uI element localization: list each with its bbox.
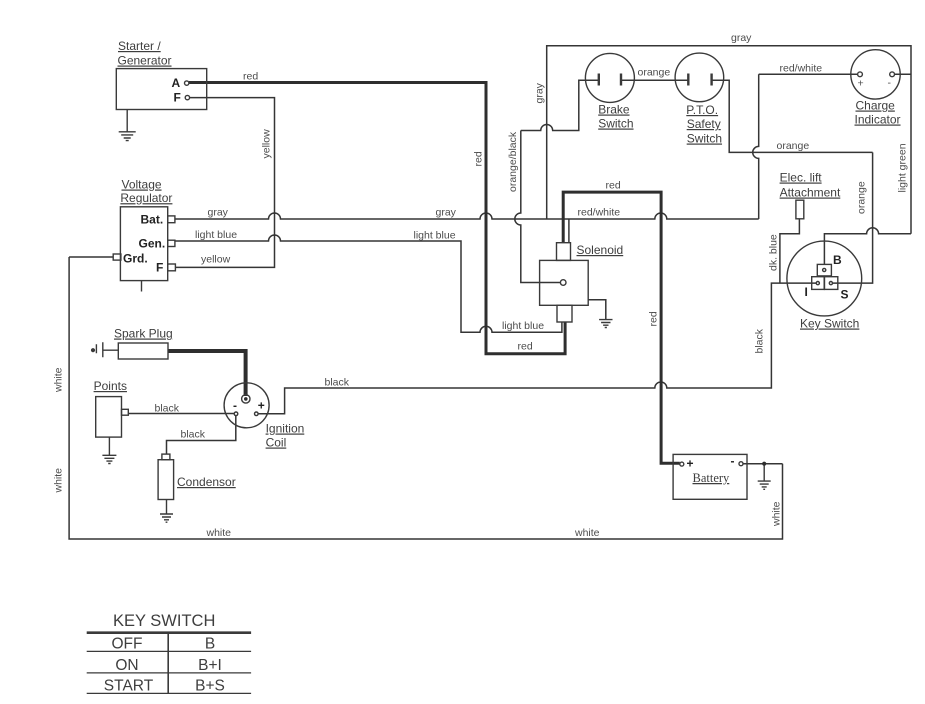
- svg-text:white: white: [206, 527, 232, 539]
- regulator Gen. terminal: [168, 240, 175, 246]
- condensor body: [158, 460, 174, 500]
- svg-text:Starter /: Starter /: [118, 39, 161, 53]
- regulator Grd. terminal: [113, 254, 121, 260]
- wire white ground loop: left side, bottom, up to battery minus: [69, 257, 782, 539]
- svg-text:A: A: [172, 76, 181, 90]
- wire brake switch to PTO switch (orange): [621, 79, 688, 81]
- regulator Bat. terminal: [168, 216, 175, 223]
- regulator F terminal: [168, 264, 176, 271]
- wire battery minus to ground junction: [743, 463, 783, 465]
- svg-text:Regulator: Regulator: [120, 191, 172, 205]
- key switch S pin: [829, 282, 832, 285]
- node battery ground junction: [762, 462, 766, 466]
- brake switch left contact bar: [598, 74, 600, 86]
- ground (starter/generator): [119, 110, 136, 141]
- wire white: regulator Grd. stub: [69, 256, 113, 258]
- wire red/white from charge indicator plus, left and down with hop over orange horizontal: [753, 74, 858, 219]
- svg-text:black: black: [155, 403, 180, 415]
- starter pin A terminal: [185, 81, 189, 85]
- svg-text:-: -: [233, 399, 237, 413]
- svg-text:Key Switch: Key Switch: [800, 317, 859, 331]
- svg-text:light blue: light blue: [195, 229, 237, 241]
- svg-text:-: -: [888, 77, 892, 89]
- svg-text:Switch: Switch: [687, 132, 722, 146]
- charge indicator circle: [851, 50, 900, 99]
- svg-text:Points: Points: [94, 379, 127, 393]
- key switch I contact box: [812, 277, 825, 290]
- svg-text:Elec. lift: Elec. lift: [780, 171, 823, 185]
- spark plug body: [118, 343, 168, 359]
- ignition coil tower terminal dot: [242, 395, 250, 403]
- key switch I pin: [816, 282, 819, 285]
- ground (points): [102, 437, 116, 463]
- svg-text:+: +: [258, 399, 265, 413]
- svg-text:KEY SWITCH: KEY SWITCH: [113, 612, 215, 630]
- svg-text:Attachment: Attachment: [780, 186, 841, 200]
- ground (solenoid): [599, 320, 612, 328]
- pto switch right contact bar: [710, 74, 712, 86]
- svg-text:orange: orange: [638, 67, 671, 79]
- wire thick ignition cable: spark plug to coil tower: [168, 351, 246, 396]
- wire dk. blue: key switch I up to elec lift attachment: [780, 219, 800, 283]
- wire red thick: starter A right, down, to solenoid bottom terminal: [189, 83, 565, 354]
- regulator bottom stub: [141, 281, 143, 292]
- svg-text:gray: gray: [731, 32, 752, 44]
- svg-text:red/white: red/white: [780, 63, 823, 75]
- ignition coil plus terminal: [254, 412, 258, 416]
- key switch B contact box: [817, 264, 831, 276]
- condensor cap: [162, 454, 170, 460]
- ground (condensor): [160, 500, 173, 523]
- svg-text:white: white: [574, 527, 600, 539]
- svg-text:Generator: Generator: [118, 54, 172, 68]
- svg-text:yellow: yellow: [201, 254, 231, 266]
- svg-text:B: B: [205, 636, 215, 653]
- svg-text:Battery: Battery: [693, 471, 731, 485]
- wire orange vertical down to key switch S: [833, 152, 873, 283]
- svg-text:+: +: [858, 78, 864, 90]
- wire light blue: regulator Gen. to solenoid bottom, hops over yellow and red verticals: [175, 235, 562, 332]
- brake switch right contact bar: [620, 74, 622, 86]
- svg-text:orange: orange: [856, 181, 868, 214]
- points box: [96, 397, 122, 438]
- svg-text:+: +: [687, 457, 694, 471]
- svg-text:yellow: yellow: [261, 129, 273, 159]
- svg-text:orange: orange: [777, 140, 810, 152]
- svg-text:OFF: OFF: [112, 636, 143, 653]
- svg-text:Gen.: Gen.: [139, 237, 166, 251]
- ignition coil body circle: [224, 383, 269, 428]
- svg-text:Grd.: Grd.: [123, 251, 148, 265]
- key switch S contact box: [825, 277, 838, 290]
- points terminal: [122, 409, 129, 415]
- svg-text:ON: ON: [115, 657, 138, 674]
- wire red/white branch down to solenoid top terminal: [568, 219, 570, 243]
- p.t.o. safety switch circle: [675, 53, 724, 102]
- solenoid coil terminal circle: [560, 280, 566, 286]
- key switch circle: [787, 241, 862, 316]
- svg-text:Ignition: Ignition: [266, 422, 305, 436]
- wire yellow: starter F down to regulator F: [175, 98, 275, 268]
- svg-text:Spark Plug: Spark Plug: [114, 327, 173, 341]
- svg-text:I: I: [805, 285, 808, 299]
- voltage regulator box: [120, 207, 167, 281]
- svg-text:gray: gray: [208, 207, 229, 219]
- svg-text:F: F: [156, 261, 163, 275]
- svg-text:gray: gray: [436, 207, 457, 219]
- charge indicator plus terminal: [858, 72, 863, 77]
- svg-text:S: S: [841, 288, 849, 302]
- solenoid bottom terminal: [557, 305, 572, 322]
- svg-text:B+S: B+S: [195, 678, 225, 695]
- elec. lift attachment connector: [796, 200, 804, 219]
- svg-text:Indicator: Indicator: [855, 113, 901, 127]
- svg-text:Bat.: Bat.: [141, 213, 164, 227]
- svg-text:Switch: Switch: [598, 117, 633, 131]
- pto switch left contact bar: [687, 74, 689, 86]
- ground (battery): [758, 464, 771, 490]
- battery plus terminal: [680, 462, 684, 466]
- svg-text:Brake: Brake: [598, 103, 630, 117]
- svg-text:light blue: light blue: [502, 320, 544, 332]
- wire black: condensor up to coil minus: [167, 416, 236, 455]
- svg-text:black: black: [181, 429, 206, 441]
- key switch B pin: [823, 268, 826, 271]
- wire brake switch left leg down, left with hop over gray vertical: [521, 80, 599, 130]
- wire orange/black vertical down to solenoid coil terminal, hop over main bus: [515, 131, 561, 283]
- svg-text:white: white: [53, 367, 65, 393]
- battery minus terminal: [739, 462, 743, 466]
- svg-text:B+I: B+I: [198, 657, 222, 674]
- wire black: coil plus right, up, along bottom to key switch I, hop over battery red: [258, 283, 816, 414]
- svg-text:Condensor: Condensor: [177, 475, 236, 489]
- solenoid main box: [540, 260, 589, 305]
- svg-text:red: red: [648, 311, 660, 326]
- svg-text:dk. blue: dk. blue: [768, 234, 780, 271]
- svg-text:white: white: [771, 501, 783, 527]
- svg-text:START: START: [104, 678, 154, 695]
- svg-text:Safety: Safety: [687, 117, 721, 131]
- starter/generator box: [116, 69, 206, 110]
- svg-text:light blue: light blue: [414, 230, 456, 242]
- svg-text:black: black: [325, 377, 350, 389]
- svg-text:red: red: [473, 151, 485, 166]
- svg-text:gray: gray: [534, 82, 546, 103]
- charge indicator minus terminal: [890, 72, 895, 77]
- ignition coil minus terminal: [234, 412, 238, 416]
- svg-text:Charge: Charge: [856, 99, 896, 113]
- svg-text:red: red: [606, 180, 621, 192]
- svg-text:F: F: [174, 91, 181, 105]
- svg-text:black: black: [754, 328, 766, 353]
- solenoid top terminal: [557, 243, 571, 261]
- wire red thick: solenoid top terminal up, right, down to battery plus: [563, 192, 680, 463]
- wire black: points to coil minus: [128, 413, 234, 415]
- svg-text:light green: light green: [897, 143, 909, 192]
- svg-text:white: white: [53, 468, 65, 494]
- spark plug gap electrode symbol: [96, 342, 118, 357]
- starter pin F terminal: [185, 95, 189, 99]
- key switch table lines: [87, 633, 251, 694]
- wire gray/red-white main horizontal bus (Bat. to charge indicator) with hops over yellow, red, battery-red verticals: [175, 213, 759, 219]
- svg-text:red/white: red/white: [578, 207, 621, 219]
- svg-text:P.T.O.: P.T.O.: [686, 103, 718, 117]
- svg-text:orange/black: orange/black: [507, 131, 519, 192]
- svg-text:red: red: [243, 71, 258, 83]
- brake switch circle: [585, 53, 634, 102]
- key switch table rows: [104, 636, 225, 695]
- battery box: [673, 454, 747, 499]
- wire orange: PTO switch right leg down and across to orange vertical: [712, 80, 873, 152]
- svg-text:Coil: Coil: [266, 436, 287, 450]
- wire light green: key switch B up and right to right-side vertical, hop over orange: [824, 228, 911, 265]
- wire solenoid ground lead: [588, 300, 606, 320]
- wire charge indicator minus stub to right vertical: [895, 73, 912, 75]
- svg-text:Solenoid: Solenoid: [577, 243, 624, 257]
- svg-text:red: red: [518, 341, 533, 353]
- svg-text:-: -: [731, 454, 735, 468]
- svg-text:Voltage: Voltage: [122, 178, 162, 192]
- wire gray vertical up from bus to top gray run and down right side to charge indicator junction: [547, 46, 911, 234]
- svg-text:B: B: [833, 253, 842, 267]
